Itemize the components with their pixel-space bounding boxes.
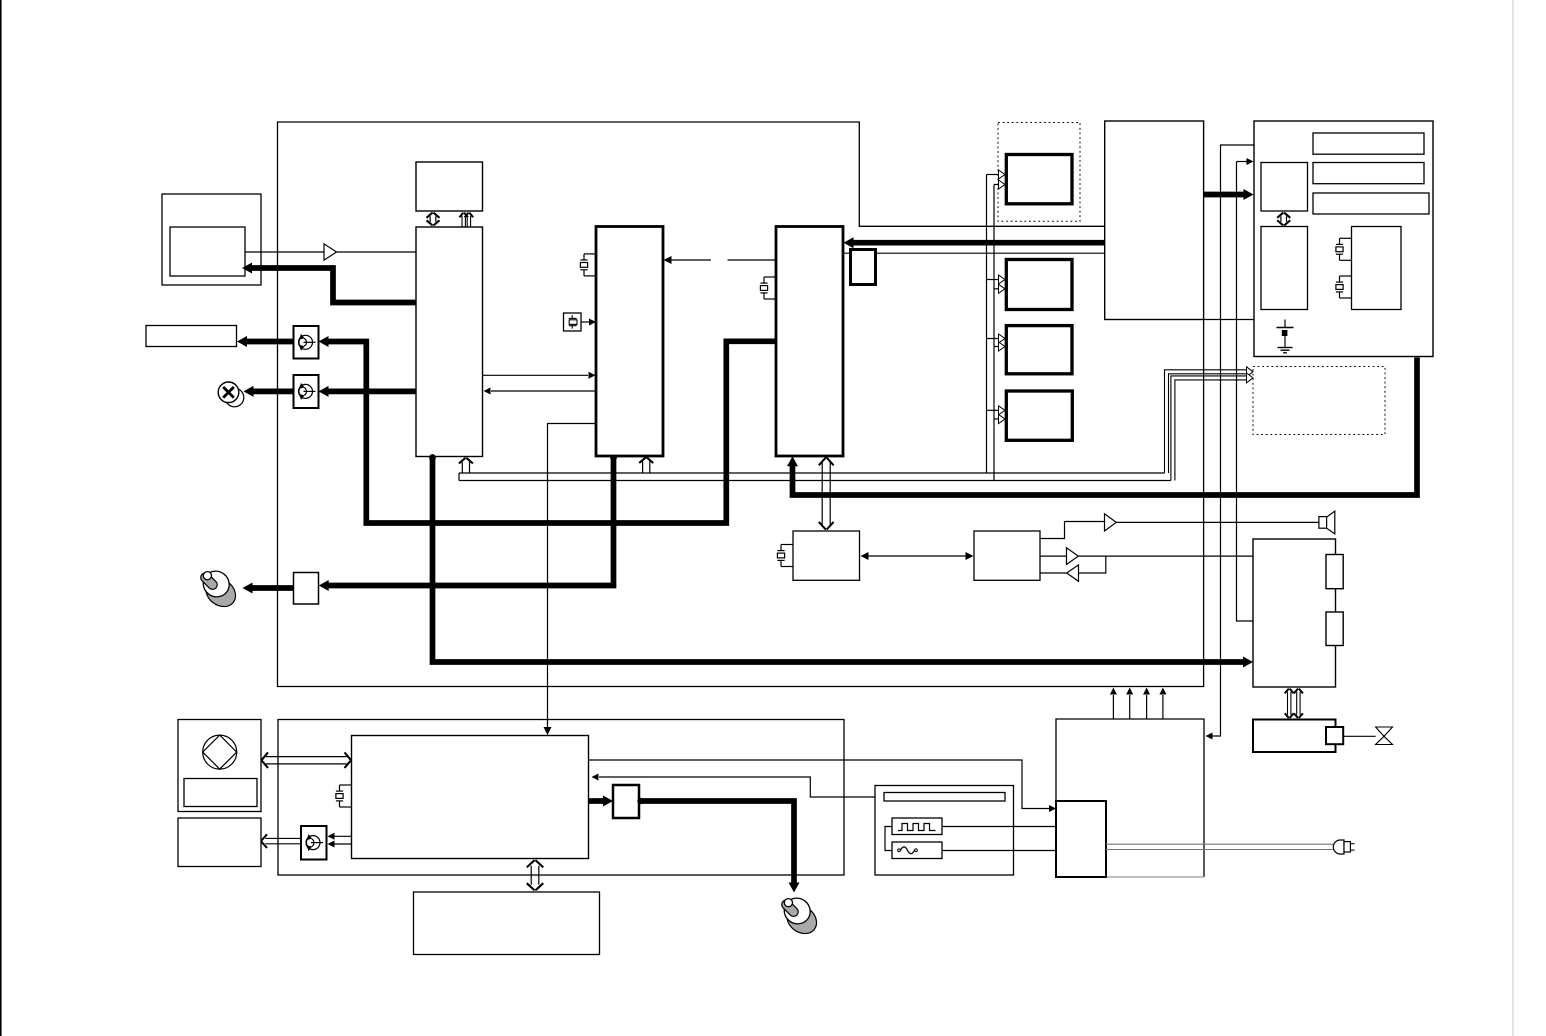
thick wire: U1 to right box	[429, 454, 1253, 667]
valve symbol (bowtie)	[1376, 727, 1393, 745]
bus arrow CPU-DDR	[527, 860, 544, 890]
RAM box 1	[1006, 155, 1072, 204]
headphone icon 1	[299, 334, 316, 351]
dashed region (module 2)	[1253, 367, 1385, 435]
bus arrows right box pair	[1285, 689, 1303, 718]
monitor outer box	[162, 194, 261, 285]
bottom enclosure box	[278, 720, 844, 876]
right box tab 1	[1326, 555, 1343, 589]
IO box 2	[1261, 227, 1308, 310]
vertical bus line A	[987, 170, 1006, 473]
PSU outer box	[1056, 719, 1204, 877]
thick wire: IO panel to U3 bottom	[787, 358, 1417, 496]
tuner box	[1105, 121, 1204, 320]
label plate box	[146, 326, 237, 347]
square wave box	[892, 818, 942, 835]
RAM box 4	[1006, 391, 1072, 440]
power strip slot	[884, 793, 1005, 802]
antenna jack icon (circled X)	[218, 382, 244, 407]
wire: tuner to PSU box (vertical)	[1206, 145, 1255, 740]
IO slot 1	[1313, 133, 1424, 154]
thick wire: block U2 to AV box	[319, 454, 617, 591]
monitor screen box	[170, 227, 245, 276]
bus arrow into U2	[639, 457, 653, 473]
wire: loopback to amp 3	[1079, 556, 1106, 573]
crystal X1 at U2	[580, 254, 596, 276]
bus arrow U3 to audio DSP (bidirectional)	[819, 458, 834, 530]
amp triangle 1	[1105, 514, 1117, 531]
wire: square wave to PSU module	[942, 826, 1056, 828]
small box right of U3	[851, 250, 876, 285]
block U3 decoder	[776, 227, 843, 457]
buffer amp triangle	[324, 244, 337, 260]
thick wire: block U1 to headphone box2	[319, 386, 421, 397]
wire: oscillator to U2	[581, 319, 596, 326]
bus arrow into U1	[459, 458, 473, 473]
bus arrow U1-memory bidirectional	[427, 213, 440, 226]
power arrow 2	[1126, 688, 1133, 720]
wire: U2 to main CPU	[544, 424, 597, 736]
bus arrow IO bidirectional	[1277, 213, 1290, 226]
wire: video out to buffer	[245, 251, 324, 253]
crystal X2 at U3	[760, 277, 776, 299]
wire arrow U2 to U1	[484, 388, 597, 395]
front panel inner rect	[184, 779, 257, 807]
lower box tab	[1326, 727, 1343, 744]
thick wire: block U3 to headphone box1	[319, 336, 777, 523]
wire: lower box to valve	[1343, 735, 1375, 737]
amp triangle 3	[1067, 565, 1079, 581]
horizontal bus lines	[459, 473, 1171, 481]
headphone jack box 3	[301, 826, 327, 860]
thick wire: CPU to USB box	[589, 796, 614, 807]
sine wave box	[892, 842, 942, 859]
oscillator box Y1	[564, 313, 582, 331]
enclosure: main digital board outline	[278, 122, 1204, 687]
audio DSP box	[793, 531, 860, 580]
thick wire: U3 to IO panel	[844, 189, 1254, 248]
IO slot 3	[1313, 193, 1429, 214]
bus arrows U1-memory up pair	[459, 213, 473, 227]
AC cord	[1106, 844, 1333, 849]
thick wire: headphone box1 to plate	[237, 336, 294, 347]
bus stub to RAM2 b	[994, 284, 1005, 293]
lower right box	[1253, 720, 1336, 753]
IO slot 2	[1313, 163, 1424, 184]
speaker icon	[1319, 511, 1335, 534]
wire: U3 to tuner box	[843, 252, 1105, 254]
crystal X3	[1336, 238, 1352, 260]
wire: audio DSP to codec (bidir)	[861, 552, 974, 560]
PSU module box	[1056, 801, 1106, 877]
power arrow 3	[1143, 688, 1150, 720]
IO controller box	[1261, 163, 1308, 212]
power arrow 4	[1159, 688, 1166, 720]
bus stub to RAM4 b	[994, 415, 1005, 424]
hollow arrow: headphone box3 to IR box	[261, 834, 301, 848]
wire arrow CPU to headphone box3 b	[328, 841, 352, 848]
headphone jack box 2	[294, 375, 319, 408]
IO box 3	[1352, 227, 1402, 310]
thick wire: AV box to plug icon	[243, 583, 294, 594]
crystal X5 at audio DSP	[777, 545, 793, 567]
power strip bracket	[885, 827, 892, 851]
IO panel box	[1254, 121, 1433, 357]
wire: amp2 to right box	[1078, 555, 1253, 557]
headphone icon 3	[306, 834, 323, 851]
wire: sine wave to PSU module	[942, 850, 1056, 852]
wire arrow U1 to U2	[483, 372, 596, 379]
memory box above U1	[416, 162, 483, 211]
power strip box	[875, 786, 1014, 876]
bus arrow: front panel to main CPU	[262, 752, 351, 768]
PSU bottom gray edge	[1106, 876, 1204, 878]
wire: amp3 to codec	[1040, 572, 1067, 574]
amp triangle 2	[1067, 548, 1079, 565]
AC plug	[1333, 840, 1354, 854]
crystal X6 at main CPU	[336, 785, 352, 807]
plug connector icon 2	[779, 893, 822, 939]
thick wire: headphone box2 to antenna jack	[244, 386, 294, 397]
block U1 video processor	[416, 227, 483, 457]
RAM box 2	[1006, 260, 1072, 310]
vertical bus line B	[994, 180, 1005, 481]
headphone icon 2	[299, 383, 316, 400]
AV out box	[294, 573, 319, 605]
bus stub to RAM4 a	[987, 406, 1006, 415]
block U2 scaler	[596, 227, 663, 457]
bus pipe to module 2 upper	[1165, 367, 1254, 473]
bus stub to RAM3 a	[987, 334, 1006, 343]
headphone jack box 1	[294, 326, 319, 359]
wire: tuner bottom to ground	[1204, 319, 1285, 321]
wire: buffer to block U1	[337, 251, 417, 253]
main CPU box	[352, 736, 589, 859]
plug connector icon 1	[198, 566, 241, 612]
wire: CPU to PSU module	[589, 760, 1057, 812]
bus stub to RAM3 b	[994, 342, 1005, 351]
thick wire: USB box to plug icon 2	[637, 798, 799, 893]
wire: IO panel to right box (vertical)	[1237, 158, 1254, 621]
nav key icon (circle diamond)	[203, 735, 237, 769]
bus stub to RAM2 a	[987, 275, 1006, 284]
page scan edge right	[1512, 0, 1514, 1036]
wire: amp1 to speaker	[1116, 521, 1319, 523]
dashed region (module 1)	[998, 123, 1080, 222]
power arrow 1	[1110, 688, 1117, 720]
USB box	[613, 785, 639, 818]
DDR memory box	[414, 892, 600, 955]
thick wire: U1 to monitor	[242, 263, 416, 303]
wire into U2 from U3 (with gap)	[664, 256, 777, 264]
RAM box 3	[1006, 326, 1072, 374]
right box (monitor control)	[1253, 539, 1336, 687]
page scan edge left	[0, 0, 2, 1036]
IR receiver box	[178, 818, 261, 867]
right box tab 2	[1326, 612, 1343, 646]
wire: codec to amp 1	[1040, 522, 1104, 539]
wire arrow CPU to headphone box3 a	[328, 833, 352, 840]
ground symbol	[1277, 320, 1294, 353]
crystal X4	[1336, 276, 1352, 298]
front panel box	[178, 720, 261, 812]
audio codec box	[974, 531, 1040, 580]
wire: codec to amp 2	[1040, 555, 1066, 557]
wire: power strip to CPU	[592, 774, 885, 798]
bus pipe to module 2 lower	[1171, 373, 1253, 481]
